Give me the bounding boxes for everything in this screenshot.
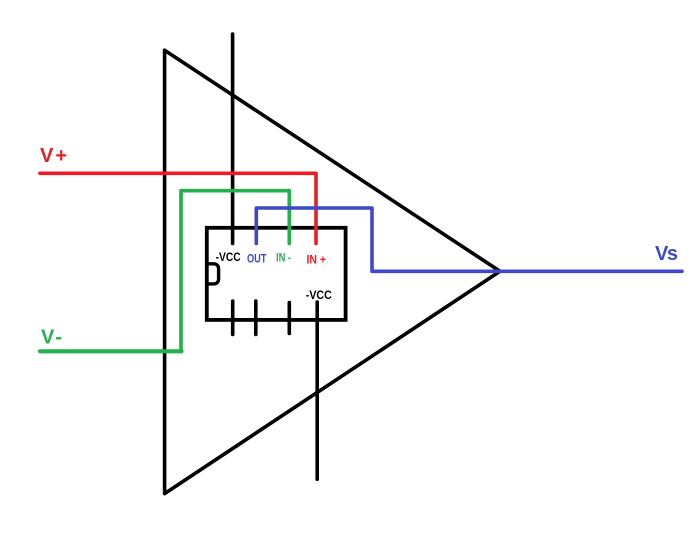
svg-text:IN +: IN +: [307, 253, 327, 267]
pin 2 (bottom): [254, 301, 258, 335]
pin 4 (bottom, -VCC lead): [315, 302, 319, 479]
wire V- (green) up-over-down to IN- pin: [181, 191, 289, 352]
svg-text:IN -: IN -: [276, 250, 291, 264]
wire V- (green) horizontal from label: [40, 349, 182, 353]
pin 3 (bottom): [287, 303, 291, 334]
svg-text:-VCC: -VCC: [306, 288, 332, 302]
wire: top vertical black (-VCC pin lead): [231, 34, 235, 244]
wire Vs (blue) from OUT pin: [256, 208, 682, 271]
svg-text:V-: V-: [41, 327, 62, 349]
svg-text:OUT: OUT: [247, 252, 267, 266]
svg-text:Vs: Vs: [655, 243, 678, 265]
op-amp U1: [165, 50, 500, 493]
svg-text:-VCC: -VCC: [216, 250, 241, 264]
IC notch: [207, 264, 219, 284]
svg-text:V+: V+: [40, 145, 67, 167]
pin 1 (bottom): [231, 301, 235, 335]
wire V+ (red) to IN+ pin: [40, 173, 316, 243]
IC chip body: [207, 228, 346, 320]
